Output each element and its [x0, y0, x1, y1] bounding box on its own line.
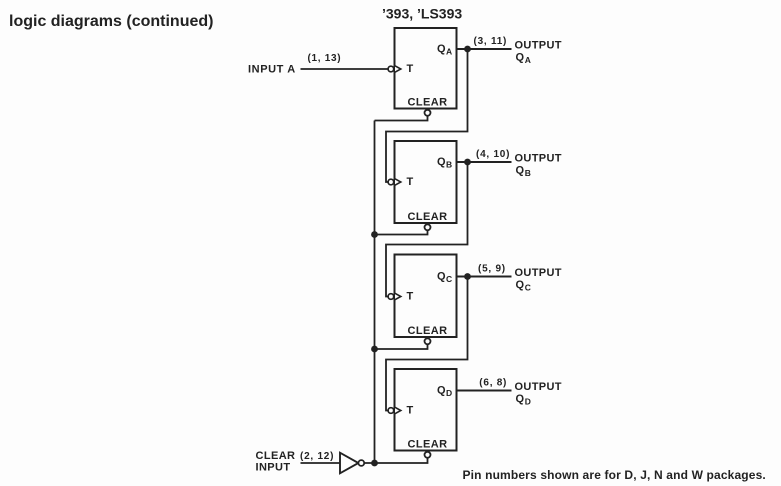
- svg-text:(4, 10): (4, 10): [476, 149, 510, 160]
- svg-text:’393, ’LS393: ’393, ’LS393: [382, 5, 462, 21]
- node: clear junction at FF C: [371, 346, 378, 353]
- svg-text:INPUT A: INPUT A: [248, 64, 296, 76]
- flip-flop B box: [395, 141, 457, 223]
- flip-flop C T input bubble: [388, 294, 394, 300]
- svg-text:CLEAR: CLEAR: [408, 325, 448, 337]
- node: QB junction dot: [464, 159, 471, 166]
- wire: QC output: [457, 276, 512, 278]
- svg-text:A: A: [446, 47, 452, 57]
- wire: clear chain to FF C clear bubble: [375, 344, 428, 349]
- flip-flop B T input edge-trigger wedge: [395, 179, 401, 185]
- svg-text:CLEAR: CLEAR: [408, 97, 448, 109]
- flip-flop D T input bubble: [388, 408, 394, 414]
- inverter output bubble: [358, 460, 364, 466]
- svg-text:Q: Q: [516, 393, 525, 405]
- svg-text:D: D: [446, 388, 452, 398]
- svg-text:CLEAR: CLEAR: [256, 450, 296, 462]
- wire: FF A clear to clear chain: [375, 116, 428, 121]
- svg-text:CLEAR: CLEAR: [408, 439, 448, 451]
- svg-text:CLEAR: CLEAR: [408, 211, 448, 223]
- node: QA junction dot: [464, 46, 471, 53]
- svg-text:OUTPUT: OUTPUT: [515, 381, 562, 393]
- svg-text:B: B: [525, 168, 531, 178]
- svg-text:D: D: [525, 396, 531, 406]
- flip-flop A CLEAR bubble: [425, 110, 431, 116]
- wire: inverter output to FF D clear bubble: [364, 458, 427, 463]
- svg-text:Q: Q: [437, 43, 446, 55]
- flip-flop A T input bubble: [388, 66, 394, 72]
- svg-text:(6, 8): (6, 8): [479, 377, 507, 388]
- svg-text:(2, 12): (2, 12): [300, 451, 334, 462]
- svg-text:logic diagrams (continued): logic diagrams (continued): [9, 13, 213, 30]
- flip-flop B T input bubble: [388, 179, 394, 185]
- svg-text:(3, 11): (3, 11): [474, 36, 508, 47]
- svg-text:B: B: [446, 160, 452, 170]
- svg-text:(5, 9): (5, 9): [478, 263, 506, 274]
- svg-text:Q: Q: [437, 385, 446, 397]
- wire: clear chain to FF B clear bubble: [375, 230, 428, 234]
- flip-flop C box: [395, 255, 457, 338]
- svg-text:C: C: [446, 274, 452, 284]
- wire: QB feedback to FF C T input: [386, 162, 468, 297]
- svg-text:Q: Q: [437, 271, 446, 283]
- inverter triangle: [340, 453, 358, 474]
- svg-text:INPUT: INPUT: [256, 462, 291, 474]
- svg-text:OUTPUT: OUTPUT: [515, 39, 562, 51]
- flip-flop D T input edge-trigger wedge: [395, 407, 401, 413]
- flip-flop D box: [395, 369, 457, 451]
- flip-flop A box: [395, 28, 457, 109]
- wire: QA feedback to FF B T input: [386, 49, 468, 182]
- node: clear junction at inverter output: [371, 460, 378, 467]
- flip-flop A T input edge-trigger wedge: [395, 66, 401, 72]
- wire: INPUT A to FF A T bubble: [301, 68, 389, 70]
- flip-flop C T input edge-trigger wedge: [395, 293, 401, 299]
- svg-text:OUTPUT: OUTPUT: [515, 267, 562, 279]
- wire: QD output: [457, 390, 512, 392]
- wire: clear chain vertical: [374, 121, 376, 464]
- svg-text:Q: Q: [516, 279, 525, 291]
- svg-text:OUTPUT: OUTPUT: [515, 152, 562, 164]
- svg-text:T: T: [407, 405, 414, 417]
- wire: QA output: [457, 48, 512, 50]
- flip-flop B CLEAR bubble: [425, 224, 431, 230]
- node: clear junction at FF B: [371, 231, 378, 238]
- wire: CLEAR INPUT to inverter: [301, 462, 341, 464]
- wire: QC feedback to FF D T input: [386, 277, 468, 411]
- svg-text:Q: Q: [437, 156, 446, 168]
- wire: QB output: [457, 161, 512, 163]
- svg-text:Q: Q: [516, 164, 525, 176]
- svg-text:T: T: [407, 176, 414, 188]
- svg-text:Pin numbers shown are for D, J: Pin numbers shown are for D, J, N and W …: [463, 468, 766, 482]
- svg-text:A: A: [525, 55, 531, 65]
- svg-text:Q: Q: [516, 51, 525, 63]
- node: QC junction dot: [464, 273, 471, 280]
- svg-text:T: T: [407, 63, 414, 75]
- flip-flop C CLEAR bubble: [425, 338, 431, 344]
- svg-text:C: C: [525, 282, 531, 292]
- svg-text:T: T: [407, 291, 414, 303]
- flip-flop D CLEAR bubble: [425, 452, 431, 458]
- svg-text:(1, 13): (1, 13): [308, 53, 342, 64]
